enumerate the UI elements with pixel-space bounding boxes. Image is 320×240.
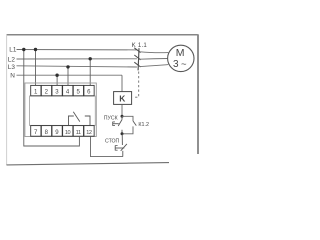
wire L1 drop to bottom and terminal 11 [24,50,80,147]
contact K1.2 stub bottom [122,126,133,133]
frame left [6,35,8,165]
node start junction [121,115,124,118]
stop button stub top [121,134,123,145]
terminal 8 [41,126,51,137]
wire L2 line [17,58,137,60]
wire to motor phase 3 [140,65,169,67]
stop button plunger [115,147,124,149]
terminal 5 [73,85,83,95]
node L1 drop junction [22,48,25,51]
terminal 4 [63,85,73,95]
internal relay contact blade [73,112,80,122]
wire N to terminal 3 [56,75,58,85]
svg-text:~: ~ [181,59,187,70]
terminal 10 [63,126,73,137]
terminal 6 [84,85,94,95]
wire L2 to terminal 6 [89,59,91,86]
svg-text:ПУСК: ПУСК [104,115,118,121]
start button stub bottom [121,130,123,134]
frame right [197,35,199,154]
node L1 terminal1 junction [34,48,37,51]
wire L1 line [17,49,137,51]
svg-text:12: 12 [86,130,92,136]
terminal 1 [31,85,41,95]
svg-text:M: M [176,47,185,59]
wire N line [17,74,123,76]
svg-text:L2: L2 [8,56,16,63]
terminal 3 [52,85,62,95]
node stop junction [121,132,124,135]
node N terminal3 junction [55,74,58,77]
contactor K1.1 blade L3 [134,62,140,67]
svg-text:L3: L3 [8,64,16,71]
svg-text:N: N [10,72,15,79]
terminal 7 [31,126,41,137]
wire L3 to terminal 4 [67,67,69,86]
relay device case [25,83,96,137]
wire coil to start junction [121,104,123,116]
wire L1 to terminal 1 [35,50,37,86]
wire to motor phase 2 [140,58,168,61]
mechanical link dashed [134,72,139,98]
stop button stub bottom [122,151,124,157]
frame top [7,34,199,36]
wire N to contactor coil [121,75,123,91]
contactor K1.1 blade L1 [134,48,140,53]
start button plunger [113,123,119,125]
wire K1.2 branch top [122,116,133,121]
wire terminal 12 to stop button bottom [91,137,123,157]
svg-text:3: 3 [173,59,179,70]
start button blade [118,120,122,126]
svg-text:10: 10 [65,130,71,136]
svg-text:L1: L1 [9,47,17,54]
svg-text:СТОП: СТОП [105,139,120,145]
contactor coil K [114,92,132,105]
terminal 9 [52,126,62,137]
node L2 terminal6 junction [89,57,92,60]
terminal 12 [84,126,94,137]
svg-text:11: 11 [76,130,81,136]
node L3 terminal4 junction [66,65,69,68]
svg-text:K 1.1: K 1.1 [132,42,148,49]
wire to motor phase 1 [140,51,168,54]
contactor K1.1 link bar [137,48,140,70]
wire L3 line [17,66,137,67]
contactor K1.1 blade L2 [134,55,140,60]
terminal 2 [41,85,51,95]
internal relay contact stub terminal 10 [69,116,74,125]
terminal 11 [73,126,83,137]
stop button blade [121,144,127,151]
internal relay contact stub terminal 12 [85,116,90,125]
start button stub top [121,116,123,119]
contact K1.2 blade [133,121,136,126]
frame bottom [7,163,170,165]
svg-text:К1.2: К1.2 [138,122,149,128]
svg-text:K: K [119,93,125,103]
relay device middle body [30,96,96,125]
motor M [168,45,194,71]
